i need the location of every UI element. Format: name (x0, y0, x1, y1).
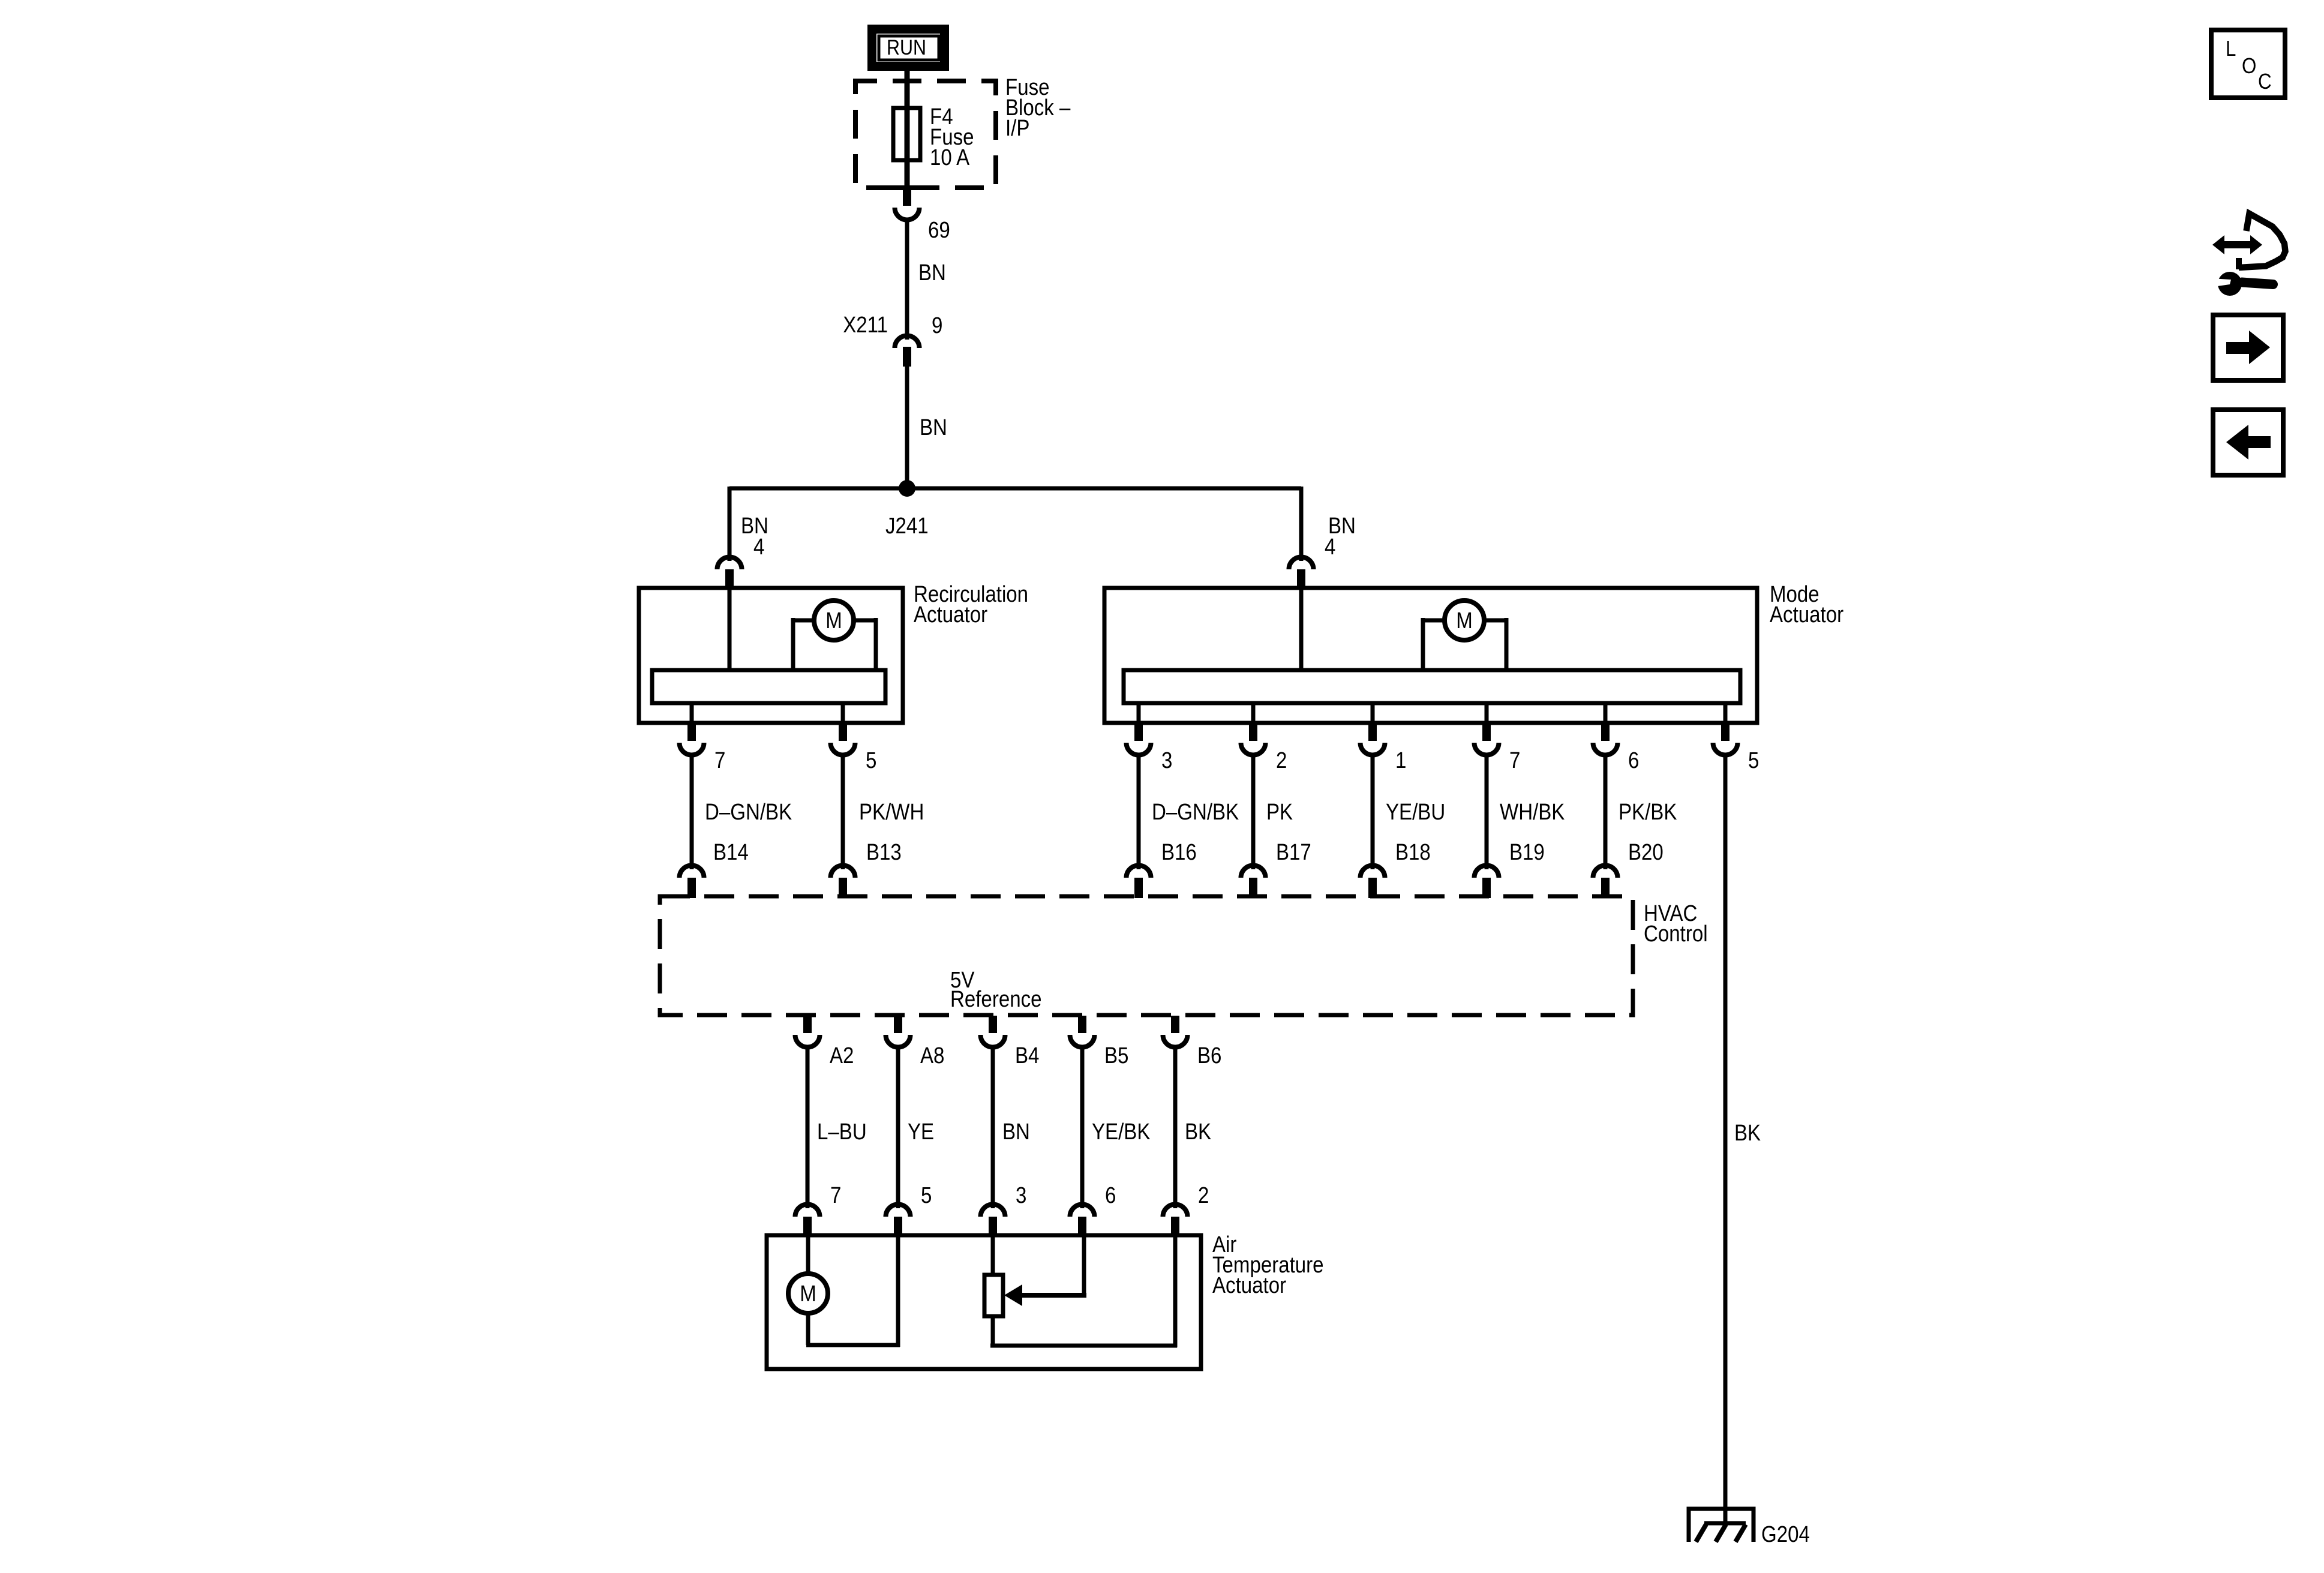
svg-text:D–GN/BK: D–GN/BK (1152, 799, 1239, 825)
svg-text:7: 7 (1509, 748, 1520, 773)
svg-text:3: 3 (1016, 1182, 1026, 1208)
svg-text:9: 9 (932, 313, 942, 338)
svg-text:B14: B14 (713, 839, 749, 865)
svg-text:B20: B20 (1628, 839, 1664, 865)
svg-text:YE/BU: YE/BU (1386, 799, 1445, 825)
svg-text:BK: BK (1185, 1119, 1211, 1145)
svg-text:J241: J241 (885, 513, 929, 539)
svg-text:6: 6 (1628, 748, 1639, 773)
svg-text:YE/BK: YE/BK (1092, 1119, 1151, 1145)
svg-text:YE: YE (908, 1119, 934, 1145)
svg-text:4: 4 (1325, 534, 1335, 560)
svg-text:A2: A2 (830, 1043, 854, 1068)
svg-text:B5: B5 (1104, 1043, 1128, 1068)
svg-text:X211: X211 (843, 312, 888, 338)
svg-text:2: 2 (1198, 1182, 1209, 1208)
svg-text:B4: B4 (1015, 1043, 1039, 1068)
svg-text:B17: B17 (1276, 839, 1311, 865)
svg-text:G204: G204 (1761, 1521, 1810, 1547)
svg-text:Actuator: Actuator (1770, 602, 1843, 628)
svg-text:BK: BK (1734, 1120, 1761, 1146)
svg-text:Actuator: Actuator (1212, 1272, 1286, 1298)
svg-text:B18: B18 (1395, 839, 1431, 865)
svg-text:O: O (2242, 54, 2256, 79)
svg-text:M: M (825, 608, 842, 634)
svg-text:L: L (2226, 37, 2236, 61)
svg-text:4: 4 (753, 534, 764, 560)
svg-text:7: 7 (830, 1182, 841, 1208)
svg-text:C: C (2258, 70, 2272, 94)
svg-text:Control: Control (1644, 921, 1708, 947)
svg-text:1: 1 (1395, 748, 1406, 773)
svg-text:I/P: I/P (1005, 115, 1029, 141)
svg-text:Actuator: Actuator (914, 602, 987, 628)
svg-text:RUN: RUN (887, 35, 926, 59)
svg-text:M: M (1456, 608, 1473, 634)
svg-text:B19: B19 (1509, 839, 1545, 865)
svg-text:7: 7 (714, 748, 725, 773)
svg-text:B13: B13 (866, 839, 902, 865)
svg-text:PK/WH: PK/WH (859, 799, 924, 825)
svg-text:B6: B6 (1197, 1043, 1221, 1068)
svg-text:5: 5 (1748, 748, 1759, 773)
svg-text:5: 5 (866, 748, 876, 773)
svg-text:10 A: 10 A (930, 145, 969, 170)
svg-text:BN: BN (920, 415, 947, 440)
svg-text:69: 69 (928, 217, 950, 243)
svg-text:3: 3 (1161, 748, 1172, 773)
svg-text:BN: BN (918, 260, 946, 286)
svg-text:2: 2 (1276, 748, 1287, 773)
svg-text:D–GN/BK: D–GN/BK (705, 799, 792, 825)
svg-text:L–BU: L–BU (817, 1119, 867, 1145)
svg-text:B16: B16 (1161, 839, 1197, 865)
svg-text:5: 5 (921, 1182, 932, 1208)
svg-text:WH/BK: WH/BK (1500, 799, 1565, 825)
svg-text:BN: BN (1002, 1119, 1030, 1145)
svg-text:6: 6 (1105, 1182, 1116, 1208)
svg-text:Reference: Reference (950, 986, 1042, 1012)
svg-text:A8: A8 (920, 1043, 944, 1068)
svg-text:PK/BK: PK/BK (1619, 799, 1677, 825)
svg-text:M: M (800, 1281, 816, 1307)
svg-text:PK: PK (1266, 799, 1293, 825)
